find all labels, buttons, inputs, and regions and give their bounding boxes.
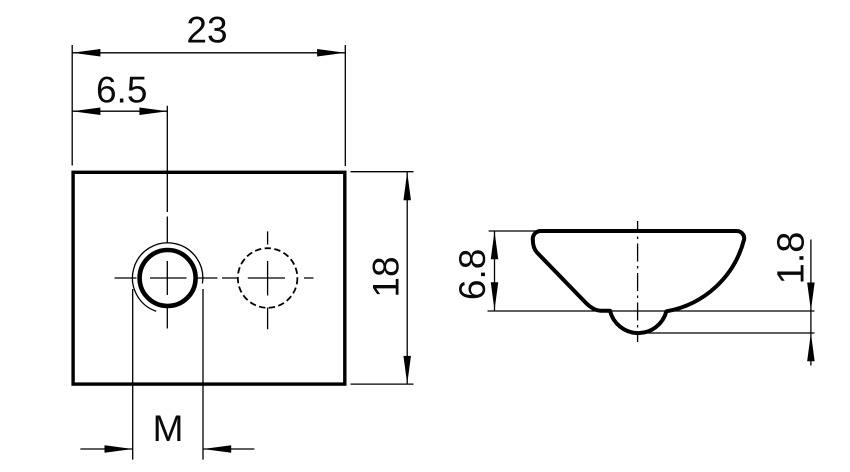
svg-text:18: 18 <box>366 256 407 297</box>
svg-text:23: 23 <box>186 10 227 51</box>
svg-text:M: M <box>153 408 184 449</box>
svg-text:6.5: 6.5 <box>96 69 147 110</box>
svg-text:6.8: 6.8 <box>452 249 493 300</box>
svg-text:1.8: 1.8 <box>771 232 813 285</box>
